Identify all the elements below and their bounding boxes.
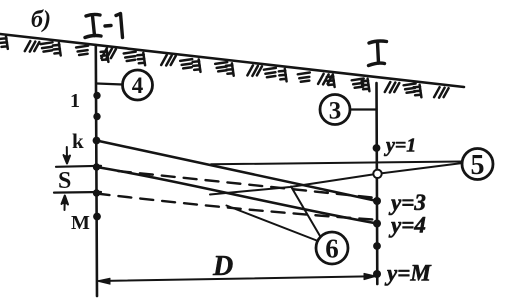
svg-text:M: M	[71, 212, 90, 234]
node dots on left borehole	[93, 92, 101, 221]
down arrow above S interval	[64, 147, 71, 164]
callout circle 6	[316, 232, 348, 264]
open circle node on right borehole	[373, 170, 381, 178]
connector to circle 3	[350, 108, 377, 110]
svg-text:S: S	[58, 168, 71, 194]
left borehole vertical line	[96, 45, 97, 296]
right borehole vertical line	[375, 83, 378, 284]
up arrow below S interval	[62, 196, 69, 211]
label I-1 (left borehole name)	[85, 14, 123, 38]
connector to circle 4	[97, 84, 123, 85]
svg-text:6: 6	[325, 234, 339, 264]
pointer line from circle 6 to upper dashed line	[291, 187, 320, 237]
svg-text:у=3: у=3	[388, 190, 426, 215]
callout circle 3	[320, 95, 350, 125]
svg-text:5: 5	[471, 150, 485, 181]
svg-text:у=4: у=4	[388, 213, 426, 238]
upper dashed interpolated line	[118, 171, 377, 198]
svg-text:1: 1	[70, 90, 80, 112]
svg-text:у=М: у=М	[384, 261, 432, 286]
ground hatching	[0, 36, 449, 97]
pointer line from circle 5 to line A	[211, 162, 463, 165]
node dots on right borehole	[373, 144, 381, 278]
svg-text:4: 4	[132, 73, 144, 98]
ground surface line	[0, 34, 464, 87]
callout circle 4	[123, 70, 153, 100]
lower dashed interpolated line	[97, 194, 375, 220]
upper tick of S interval	[56, 166, 101, 167]
svg-text:б): б)	[31, 7, 51, 33]
callout circle 5	[462, 149, 493, 180]
svg-text:D: D	[212, 251, 233, 282]
pointer line from circle 6 to lower dashed line	[227, 206, 319, 242]
label I (right borehole name)	[369, 41, 387, 66]
pointer line from circle 5 through open circle	[210, 163, 463, 195]
svg-text:3: 3	[329, 98, 342, 125]
layer line B (s to y=4)	[97, 167, 378, 224]
layer line A (k to y=3)	[97, 141, 378, 202]
svg-text:у=1: у=1	[384, 135, 416, 157]
lower tick of S interval	[54, 191, 101, 194]
dimension line D with arrowheads	[99, 276, 374, 281]
svg-text:k: k	[72, 129, 84, 153]
